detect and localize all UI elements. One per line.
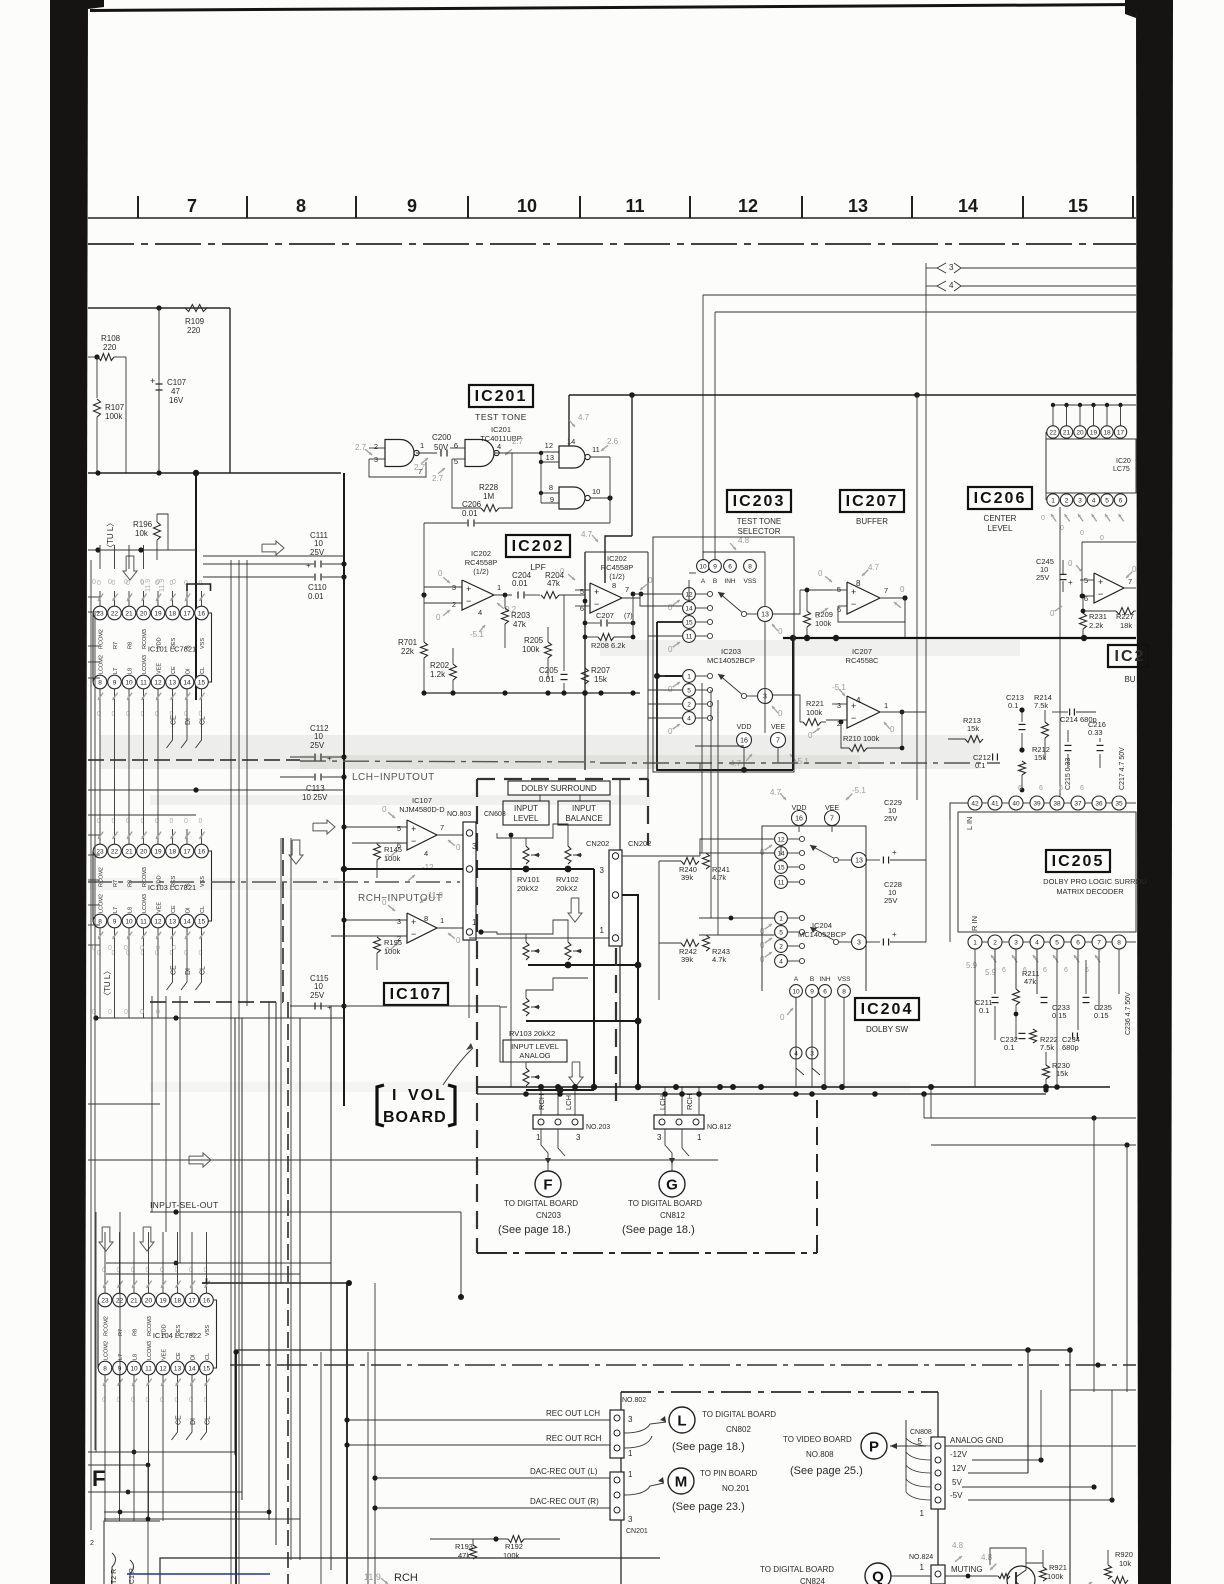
- svg-text:9: 9: [113, 919, 117, 926]
- svg-text:16: 16: [203, 1298, 211, 1305]
- svg-text:4.7: 4.7: [581, 530, 593, 539]
- svg-text:100k: 100k: [384, 947, 401, 956]
- svg-text:IC2: IC2: [1115, 648, 1146, 665]
- svg-text:R7: R7: [118, 1329, 124, 1336]
- svg-text:220: 220: [187, 326, 201, 335]
- wire x926 vertical full: [925, 712, 927, 942]
- wire right horizontals y1118 y1145: [924, 1117, 1136, 1119]
- wire IC207b output right: [900, 711, 926, 713]
- svg-text:11.9: 11.9: [428, 891, 444, 900]
- svg-text:1.2k: 1.2k: [430, 670, 446, 679]
- junction dots bottom left wires: [132, 1450, 137, 1455]
- svg-text:5: 5: [779, 930, 783, 937]
- switch IC203 left pins group B: [683, 670, 696, 683]
- svg-text:1: 1: [884, 701, 888, 710]
- svg-text:5: 5: [1105, 498, 1109, 505]
- svg-text:(1/2): (1/2): [609, 572, 625, 581]
- svg-text:CN824: CN824: [800, 1577, 825, 1584]
- svg-text:17: 17: [188, 1298, 196, 1305]
- svg-text:CL: CL: [200, 966, 207, 975]
- node dot y1352: [233, 1349, 238, 1354]
- svg-text:SELECTOR: SELECTOR: [738, 527, 781, 536]
- IC204 bottom pins: [790, 985, 803, 998]
- svg-text:LCOM3: LCOM3: [142, 894, 148, 913]
- wire transistor top: [990, 1548, 1026, 1565]
- svg-text:6: 6: [823, 989, 827, 996]
- capacitor C113: [314, 774, 316, 781]
- svg-text:4: 4: [478, 608, 482, 617]
- arrow down x296: [289, 840, 303, 864]
- svg-text:INPUT-SEL-OUT: INPUT-SEL-OUT: [150, 1200, 219, 1210]
- arrow down input-sel 2: [140, 1227, 154, 1251]
- IC205 gray pointers: [991, 955, 996, 962]
- svg-text:100k: 100k: [1047, 1572, 1064, 1581]
- svg-text:RV102: RV102: [556, 875, 579, 884]
- svg-text:2.6: 2.6: [607, 437, 619, 446]
- switch IC203 common pin bottom: [758, 689, 773, 704]
- net arrow <3>: [937, 263, 946, 273]
- wire horizontal y1274: [106, 1273, 300, 1275]
- IC207 label box: [840, 490, 904, 512]
- svg-text:220: 220: [103, 343, 117, 352]
- svg-text:22: 22: [111, 611, 119, 618]
- svg-text:13: 13: [761, 612, 769, 619]
- wire IC203 left connections: [633, 593, 682, 595]
- switch IC203 switch arm B: [741, 693, 746, 698]
- I VOL BOARD label: [377, 1085, 384, 1126]
- wire CN808 left curves: [906, 1420, 931, 1446]
- svg-text:IC202: IC202: [471, 549, 491, 558]
- svg-text:0: 0: [140, 579, 144, 586]
- resistor R107: [96, 357, 98, 398]
- svg-text:L7: L7: [113, 668, 119, 674]
- wire RV103b frame: [500, 1007, 526, 1068]
- svg-text:NO.803: NO.803: [447, 811, 471, 818]
- svg-text:L8: L8: [128, 907, 134, 913]
- svg-text:6: 6: [1080, 785, 1084, 792]
- svg-text:IC204: IC204: [861, 1001, 914, 1018]
- svg-text:2.7: 2.7: [355, 443, 367, 452]
- svg-text:M: M: [675, 1474, 688, 1491]
- op-amp IC202b: [590, 583, 622, 613]
- wire CN808 to P arrow: [890, 1445, 926, 1447]
- svg-text:CN808: CN808: [910, 1429, 932, 1436]
- wire y1519 stub: [104, 1518, 300, 1520]
- capacitor C215 vertical: [1065, 744, 1072, 746]
- svg-text:+: +: [411, 824, 416, 834]
- svg-text:0: 0: [124, 945, 128, 952]
- svg-text:VEE: VEE: [771, 724, 785, 731]
- wire IC203 pin13 to R209: [773, 590, 801, 614]
- IC204 label box: [855, 998, 919, 1020]
- left edge wires: [88, 596, 100, 598]
- svg-text:4.7: 4.7: [770, 788, 782, 797]
- svg-text:INPUT: INPUT: [514, 804, 538, 813]
- svg-text:RC4558P: RC4558P: [465, 558, 498, 567]
- svg-text:18: 18: [169, 849, 177, 856]
- svg-text:LCH: LCH: [564, 1095, 573, 1110]
- svg-text:I: I: [392, 1087, 396, 1104]
- svg-text:100k: 100k: [503, 1551, 520, 1560]
- wire verticals centre-left: [234, 1018, 236, 1455]
- wire verticals centre bottom: [320, 1352, 322, 1584]
- resistor R922 partial: [1112, 1577, 1128, 1584]
- wire right verticals x1094 x1127: [1093, 1118, 1095, 1392]
- svg-text:REC OUT LCH: REC OUT LCH: [546, 1409, 600, 1418]
- chip IC103 LC7821 top pins 23-16: [93, 844, 107, 858]
- svg-text:22k: 22k: [401, 647, 415, 656]
- svg-text:0: 0: [382, 898, 387, 907]
- svg-text:CL: CL: [200, 716, 207, 725]
- svg-text:4: 4: [1035, 940, 1039, 947]
- wire verticals below bus: [923, 1094, 925, 1118]
- bottom left board box: [160, 1558, 660, 1584]
- svg-text:0: 0: [668, 685, 673, 694]
- svg-text:0.1: 0.1: [1004, 1043, 1014, 1052]
- svg-text:4: 4: [949, 281, 954, 290]
- svg-text:7: 7: [440, 823, 444, 832]
- svg-text:0.33: 0.33: [1088, 728, 1103, 737]
- svg-text:15: 15: [685, 620, 693, 627]
- svg-text:DOLBY SURROUND: DOLBY SURROUND: [521, 784, 597, 793]
- svg-text:RCH: RCH: [394, 1572, 418, 1584]
- svg-text:0: 0: [382, 805, 387, 814]
- wire CE DI CL drops to IC104: [151, 996, 153, 1212]
- svg-text:REC OUT RCH: REC OUT RCH: [546, 1434, 602, 1443]
- wire NO.812 drop to G: [665, 1129, 672, 1171]
- I VOL BOARD dashed edge right upper: [647, 779, 649, 845]
- svg-text:16: 16: [795, 816, 803, 823]
- svg-text:−: −: [851, 599, 856, 609]
- svg-text:4: 4: [856, 696, 861, 705]
- svg-text:0: 0: [97, 580, 101, 587]
- IC104 16 pin wire: [202, 1278, 207, 1283]
- svg-text:+: +: [892, 848, 897, 857]
- chip IC205 bottom pin row: [968, 935, 982, 949]
- svg-text:5: 5: [397, 824, 401, 833]
- connector NO.812: [654, 1115, 704, 1129]
- svg-text:0.01: 0.01: [462, 509, 478, 518]
- svg-text:8: 8: [549, 483, 553, 492]
- svg-text:20kX2: 20kX2: [517, 884, 538, 893]
- INPUT BALANCE box: [558, 801, 610, 825]
- svg-text:RV103 20kX2: RV103 20kX2: [509, 1029, 555, 1038]
- dash separator line left chips: [88, 759, 300, 761]
- wire y1452 stub: [88, 1451, 235, 1453]
- chip IC205 top pin links: [982, 802, 988, 804]
- IC201 label box: [469, 385, 533, 407]
- svg-text:C236 4.7 50V: C236 4.7 50V: [1125, 992, 1132, 1035]
- svg-text:15k: 15k: [594, 675, 608, 684]
- svg-text:0: 0: [1068, 559, 1073, 568]
- svg-text:C113: C113: [306, 784, 325, 793]
- svg-text:1: 1: [472, 918, 477, 927]
- wire muting to transistor: [945, 1575, 996, 1577]
- svg-text:1: 1: [628, 1470, 633, 1479]
- IC204 sub pins 4 3: [790, 1047, 802, 1059]
- svg-text:4: 4: [1092, 498, 1096, 505]
- svg-text:IC207: IC207: [852, 647, 872, 656]
- svg-text:MC14052BCP: MC14052BCP: [707, 656, 755, 665]
- svg-text:A: A: [794, 976, 799, 983]
- svg-text:+: +: [1098, 577, 1103, 587]
- svg-text:20: 20: [1076, 430, 1084, 437]
- svg-text:-5.1: -5.1: [795, 757, 809, 766]
- svg-text:C215 0.33: C215 0.33: [1065, 758, 1072, 790]
- wire RV bus y869: [476, 868, 594, 870]
- wire long verticals left column: [230, 560, 232, 1584]
- svg-text:RC4558C: RC4558C: [846, 656, 880, 665]
- wire RV101 top frame: [526, 824, 568, 846]
- wire top-right frame y312: [715, 311, 1136, 313]
- svg-text:CN203: CN203: [536, 1211, 561, 1220]
- svg-text:3: 3: [949, 263, 954, 272]
- wire y1465 stub: [88, 1464, 148, 1466]
- svg-text:NO.808: NO.808: [806, 1450, 834, 1459]
- svg-text:CE: CE: [171, 715, 178, 725]
- svg-text:16V: 16V: [169, 396, 184, 405]
- svg-text:CL: CL: [205, 1353, 211, 1360]
- wire CN202 pin3 line: [622, 855, 700, 857]
- IC104 area left verticals: [95, 1212, 97, 1452]
- svg-text:BOARD: BOARD: [383, 1109, 447, 1126]
- svg-text:〈TU L〉: 〈TU L〉: [103, 967, 112, 1000]
- wire top-right frame y295: [703, 294, 1136, 296]
- chip IC206 bottom pins: [1047, 494, 1059, 506]
- NAND gate IC201d: [559, 487, 585, 509]
- wire RV103a frame: [526, 978, 588, 998]
- wire vertical x344 from bus: [343, 473, 345, 540]
- dash vertical left chip area: [282, 838, 284, 1002]
- svg-text:INH: INH: [724, 578, 736, 585]
- wire vertical x1112: [1111, 1390, 1113, 1500]
- svg-text:40: 40: [1012, 801, 1020, 808]
- wire IC207a output down: [904, 598, 906, 638]
- svg-text:18k: 18k: [1120, 621, 1132, 630]
- svg-text:6: 6: [1119, 498, 1123, 505]
- svg-text:2.7: 2.7: [414, 463, 426, 472]
- svg-text:0: 0: [184, 818, 188, 825]
- wire RV2 bus y965: [528, 964, 638, 966]
- arrow down to NO.203: [569, 1062, 583, 1086]
- svg-text:L8: L8: [133, 1354, 139, 1360]
- svg-text:25V: 25V: [1036, 573, 1049, 582]
- switch IC204 common pin 3: [852, 935, 867, 950]
- svg-text:1: 1: [1051, 498, 1055, 505]
- svg-text:0: 0: [170, 818, 174, 825]
- svg-text:−: −: [1098, 589, 1103, 599]
- node Q to digital board: [865, 1563, 891, 1584]
- svg-text:0: 0: [108, 1009, 112, 1016]
- chip IC206 body: [1045, 432, 1047, 500]
- svg-text:R145: R145: [384, 845, 402, 854]
- bottom right frame lines: [1070, 1389, 1136, 1391]
- svg-text:12: 12: [777, 837, 785, 844]
- svg-text:R195: R195: [384, 938, 402, 947]
- top scan line: [90, 3, 1136, 12]
- wire IC202b frame vertical x585: [584, 552, 586, 770]
- wire verticals x1028 x1070 bottom: [1027, 1350, 1029, 1473]
- wire verticals above NO.203: [540, 1090, 542, 1115]
- svg-text:CENTER: CENTER: [984, 514, 1017, 523]
- connector CN201: [610, 1472, 624, 1520]
- svg-text:1: 1: [779, 916, 783, 923]
- IC203 label box: [727, 490, 791, 512]
- svg-text:4: 4: [424, 849, 428, 858]
- svg-text:-12V: -12V: [950, 1450, 968, 1459]
- svg-text:3: 3: [600, 866, 605, 875]
- svg-text:ANALOG: ANALOG: [519, 1051, 550, 1060]
- bottom left hook symbols: [112, 1553, 116, 1584]
- svg-text:8: 8: [748, 564, 752, 571]
- svg-text:13: 13: [848, 196, 868, 216]
- svg-text:2: 2: [779, 944, 783, 951]
- svg-text:38: 38: [1053, 801, 1061, 808]
- svg-text:R701: R701: [398, 638, 418, 647]
- svg-text:3: 3: [472, 842, 477, 851]
- switch IC203 top pins: [697, 560, 710, 573]
- svg-text:14: 14: [183, 919, 191, 926]
- svg-text:8: 8: [296, 196, 306, 216]
- svg-text:L8: L8: [128, 668, 134, 674]
- svg-text:17: 17: [1117, 430, 1125, 437]
- svg-text:8: 8: [842, 989, 846, 996]
- svg-text:9: 9: [550, 495, 554, 504]
- svg-text:11: 11: [140, 680, 147, 687]
- svg-text:IC20: IC20: [1116, 458, 1131, 465]
- svg-text:5: 5: [687, 688, 691, 695]
- svg-text:19: 19: [1090, 430, 1098, 437]
- svg-text:0: 0: [1132, 565, 1137, 574]
- svg-text:11: 11: [778, 880, 785, 887]
- wire verticals top-right: [702, 295, 704, 559]
- svg-text:-5.1: -5.1: [470, 630, 484, 639]
- svg-text:IC107: IC107: [412, 796, 432, 805]
- potentiometer RV102: [565, 846, 571, 864]
- svg-text:NO.824: NO.824: [909, 1554, 933, 1561]
- svg-text:RCH: RCH: [685, 1094, 694, 1110]
- switch IC203 left pins group A: [683, 588, 696, 601]
- svg-text:100k: 100k: [105, 412, 123, 421]
- svg-text:0: 0: [1080, 530, 1084, 537]
- op-amp IC107a: [407, 820, 437, 850]
- svg-text:1: 1: [600, 926, 605, 935]
- svg-text:10: 10: [314, 982, 323, 991]
- I VOL BOARD dashed edge left: [476, 779, 478, 1253]
- wire pin risers IC101 top: [99, 545, 101, 569]
- op-amp IC107b: [407, 913, 437, 943]
- svg-text:0: 0: [1060, 525, 1064, 532]
- svg-text:C205: C205: [539, 666, 559, 675]
- svg-text:R221: R221: [806, 699, 824, 708]
- svg-text:0: 0: [668, 645, 673, 654]
- wire left edge verticals: [90, 560, 92, 1530]
- svg-text:B: B: [810, 976, 814, 983]
- chip IC205 body box: [958, 812, 1136, 932]
- svg-text:10: 10: [517, 196, 537, 216]
- switch IC204 left pins group A: [775, 833, 788, 846]
- svg-text:6: 6: [1002, 967, 1006, 974]
- svg-text:NO.812: NO.812: [707, 1124, 731, 1131]
- svg-text:CN202: CN202: [586, 839, 609, 848]
- resistor R921: [1040, 1567, 1047, 1581]
- svg-text:17: 17: [183, 849, 191, 856]
- svg-text:0: 0: [1100, 535, 1104, 542]
- IC101 S pin wire to top: [187, 584, 211, 591]
- svg-text:19: 19: [154, 849, 162, 856]
- svg-text:INH: INH: [819, 976, 831, 983]
- svg-text:G: G: [666, 1177, 678, 1194]
- svg-text:47k: 47k: [513, 620, 527, 629]
- svg-text:14: 14: [958, 196, 978, 216]
- capacitor C107: [158, 308, 160, 380]
- svg-text:47: 47: [171, 387, 180, 396]
- svg-text:R8: R8: [128, 880, 134, 887]
- svg-text:13: 13: [855, 858, 863, 865]
- svg-text:11: 11: [625, 196, 644, 216]
- svg-text:R192: R192: [505, 1542, 523, 1551]
- svg-text:VSS: VSS: [205, 1325, 211, 1336]
- arrow right LCH: [313, 820, 335, 834]
- svg-text:CN812: CN812: [660, 1211, 685, 1220]
- svg-text:0.01: 0.01: [308, 592, 324, 601]
- potentiometer RV103a: [523, 998, 529, 1016]
- svg-text:0: 0: [172, 579, 176, 586]
- resistor R209: [804, 611, 811, 627]
- wire IC204 pin3 to C228: [867, 941, 881, 943]
- svg-text:R209: R209: [815, 610, 833, 619]
- arrow down left col: [123, 556, 137, 580]
- svg-text:8: 8: [424, 914, 428, 923]
- bottom left small box: [104, 1521, 160, 1584]
- svg-text:DI: DI: [185, 718, 192, 725]
- svg-text:8: 8: [856, 579, 861, 588]
- svg-text:2: 2: [687, 702, 691, 709]
- svg-text:CN202: CN202: [628, 839, 651, 848]
- svg-text:+: +: [594, 587, 599, 597]
- svg-text:DOLBY PRO LOGIC SURROU: DOLBY PRO LOGIC SURROU: [1043, 877, 1147, 886]
- svg-text:7: 7: [625, 585, 629, 594]
- svg-text:NO.802: NO.802: [622, 1397, 646, 1404]
- wire lower bus y1006: [290, 1005, 344, 1007]
- svg-text:25V: 25V: [310, 741, 325, 750]
- svg-text:BALANCE: BALANCE: [565, 814, 602, 823]
- svg-text:10: 10: [314, 732, 323, 741]
- wire pin risers IC104 top: [104, 1232, 106, 1278]
- wire RV bus vertical x594: [593, 869, 595, 1087]
- svg-text:4: 4: [687, 716, 691, 723]
- svg-text:15k: 15k: [1056, 1069, 1068, 1078]
- wire bus y=550 left: [88, 549, 196, 551]
- wire IC207a feedback: [838, 598, 905, 622]
- svg-text:21: 21: [125, 849, 133, 856]
- svg-text:R231: R231: [1089, 612, 1107, 621]
- svg-text:11.9: 11.9: [364, 1572, 381, 1582]
- svg-text:10k: 10k: [135, 529, 149, 538]
- svg-text:P: P: [869, 1439, 879, 1456]
- svg-text:2: 2: [374, 442, 378, 451]
- svg-text:17: 17: [183, 611, 191, 618]
- svg-text:A: A: [701, 578, 706, 585]
- svg-text:IC103 LC7821: IC103 LC7821: [148, 883, 196, 892]
- svg-text:41: 41: [991, 801, 999, 808]
- svg-text:VDD: VDD: [737, 724, 752, 731]
- switch IC204 common pin 13: [852, 853, 867, 868]
- svg-text:-5.1: -5.1: [832, 683, 846, 692]
- svg-text:R228: R228: [479, 483, 499, 492]
- svg-text:4.7k: 4.7k: [712, 955, 726, 964]
- svg-text:100k: 100k: [384, 854, 401, 863]
